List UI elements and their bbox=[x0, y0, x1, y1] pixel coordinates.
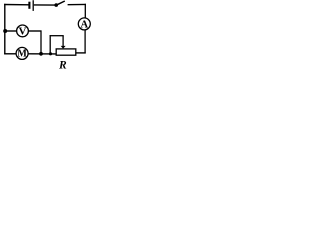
svg-text:V: V bbox=[19, 25, 27, 37]
svg-text:R: R bbox=[58, 60, 67, 71]
svg-text:A: A bbox=[81, 19, 89, 30]
svg-text:M: M bbox=[17, 49, 27, 60]
